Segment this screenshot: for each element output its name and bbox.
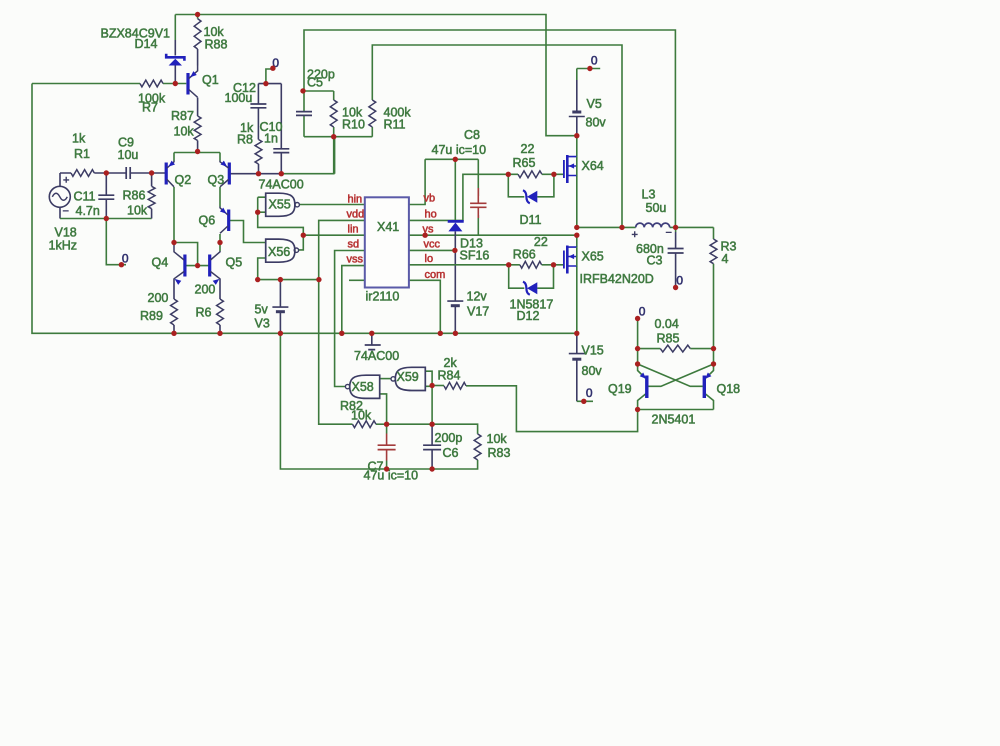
wire C6 stems xyxy=(431,424,433,469)
svg-text:1n: 1n xyxy=(264,131,278,145)
svg-text:X58: X58 xyxy=(352,380,374,394)
capacitor C5 xyxy=(296,112,312,116)
svg-text:10k: 10k xyxy=(127,204,148,218)
voltage source V15 80v xyxy=(569,353,585,355)
diode D13 SF16 bootstrap xyxy=(448,220,464,223)
wire R87 to diff pair tail xyxy=(197,141,199,153)
resistor R3 xyxy=(710,239,717,264)
wire X65 drain xyxy=(576,235,578,247)
resistor R66 xyxy=(520,261,542,268)
wire Q6 collector drop xyxy=(219,234,221,243)
svg-text:47u ic=10: 47u ic=10 xyxy=(364,469,419,483)
wire C3 top link xyxy=(675,227,677,232)
svg-text:X41: X41 xyxy=(377,220,399,234)
resistor R82 xyxy=(353,421,377,428)
resistor R8 xyxy=(255,140,262,165)
wire V18 minus bottom xyxy=(60,218,152,220)
svg-text:0: 0 xyxy=(639,304,646,318)
NAND gate X58 xyxy=(350,375,380,398)
wire R11 feedback rail xyxy=(372,45,622,227)
svg-text:1k: 1k xyxy=(72,132,86,146)
capacitor C11 xyxy=(98,195,114,199)
svg-text:L3: L3 xyxy=(642,188,656,202)
junction dots xyxy=(195,12,200,17)
svg-text:C3: C3 xyxy=(647,254,663,268)
wire lin line xyxy=(303,234,365,236)
svg-text:R65: R65 xyxy=(513,156,536,170)
capacitor C10 xyxy=(273,149,289,153)
svg-text:47u ic=10: 47u ic=10 xyxy=(432,143,487,157)
svg-text:200p: 200p xyxy=(435,431,463,445)
svg-text:R87: R87 xyxy=(171,109,194,123)
wire Q3 collector to Q6 xyxy=(219,187,221,207)
NAND gate X56 xyxy=(266,239,295,262)
svg-text:ir2110: ir2110 xyxy=(366,289,400,303)
capacitor C8 with initial condition xyxy=(477,188,479,218)
svg-text:lo: lo xyxy=(425,253,434,265)
wire V17 branch xyxy=(454,250,456,333)
wire X59 inputs tie xyxy=(425,371,432,386)
svg-text:+: + xyxy=(632,229,638,241)
transistor Q2 xyxy=(165,163,168,185)
wire V18 minus stem xyxy=(59,207,61,218)
wire C10 stems xyxy=(280,84,282,174)
svg-text:R8: R8 xyxy=(237,132,253,146)
svg-text:100u: 100u xyxy=(225,91,253,105)
svg-text:V15: V15 xyxy=(582,344,604,358)
resistor R88 xyxy=(194,19,201,49)
resistor R84 xyxy=(444,382,466,389)
wire Q1 emitter to R87 xyxy=(197,98,199,117)
wire X58 lower input down xyxy=(380,394,387,424)
wire C5 stems xyxy=(303,91,305,137)
transistor Q6 xyxy=(227,210,230,232)
wire Q6 base to X56 input xyxy=(230,221,266,243)
svg-text:X55: X55 xyxy=(269,198,291,212)
wire unused pin stub xyxy=(349,279,365,281)
svg-text:10k: 10k xyxy=(174,125,195,139)
svg-text:10k: 10k xyxy=(351,409,372,423)
resistor R7 xyxy=(140,80,163,87)
wire D11 bypass loop xyxy=(508,174,554,197)
wire Q2 emitter drop xyxy=(173,153,175,161)
svg-text:SF16: SF16 xyxy=(460,248,490,262)
wire C7 stems xyxy=(386,424,388,469)
svg-text:R84: R84 xyxy=(438,369,461,383)
transistor Q5 xyxy=(208,255,211,277)
svg-text:R1: R1 xyxy=(74,147,90,161)
wire X64 source to switch node xyxy=(576,176,578,228)
wire com pin to rail xyxy=(409,280,440,333)
capacitor C6 xyxy=(423,445,441,449)
svg-text:R88: R88 xyxy=(205,37,228,51)
wire V5 ground line xyxy=(577,68,600,70)
svg-text:R6: R6 xyxy=(196,306,212,320)
svg-text:22: 22 xyxy=(521,142,535,156)
wire left feedback drop and bottom com rail xyxy=(32,84,577,334)
svg-text:R7: R7 xyxy=(142,101,158,115)
svg-text:−: − xyxy=(666,227,672,239)
NAND gate X55 74AC00 xyxy=(266,193,295,216)
wire ground drop to R85 xyxy=(637,319,639,349)
capacitor C9 xyxy=(126,167,130,179)
resistor R10 xyxy=(330,100,337,127)
wire ho line up to R65 xyxy=(409,174,518,220)
transistor Q1 xyxy=(186,73,189,95)
svg-text:vcc: vcc xyxy=(424,239,441,251)
wire bootstrap top node xyxy=(425,158,478,160)
wire R85 left stub xyxy=(638,348,661,350)
wire emitter join bar xyxy=(638,409,714,411)
wire lower ground rail loop xyxy=(280,333,477,469)
wire Q4 emitter to R89 xyxy=(173,279,175,300)
voltage source V5 80v xyxy=(569,116,585,118)
wire C5 R10 top link xyxy=(304,91,334,100)
resistor R83 xyxy=(474,434,481,460)
wire C8 bottom stem xyxy=(477,215,479,235)
svg-text:D12: D12 xyxy=(517,309,540,323)
wire mirror bases link xyxy=(174,243,198,266)
wire Q18 emitter xyxy=(706,364,714,378)
svg-text:Q1: Q1 xyxy=(202,73,219,87)
svg-text:vss: vss xyxy=(347,254,364,266)
label 74AC00 lower with ground xyxy=(365,345,381,350)
wire cross couple to Q18 base xyxy=(638,364,703,386)
wire Q5 collector drop xyxy=(219,243,221,252)
wire C12 top stem xyxy=(257,84,259,104)
wire switch node to L3 xyxy=(577,226,636,228)
svg-text:sd: sd xyxy=(348,239,360,251)
transistor Q3 xyxy=(228,163,231,185)
svg-text:R83: R83 xyxy=(488,446,511,460)
svg-text:4: 4 xyxy=(722,252,729,266)
zener diode D14 BZX84C9V1 xyxy=(174,15,176,41)
wire R3 stems xyxy=(713,227,715,348)
wire Q18 top node xyxy=(713,349,715,364)
inductor L3 xyxy=(636,223,670,227)
wire X58 input from X59 xyxy=(380,378,391,380)
wire Q19 emitter xyxy=(638,364,646,378)
svg-text:0: 0 xyxy=(591,54,598,68)
svg-text:0: 0 xyxy=(676,273,683,287)
wire Q4 Q5 base bar xyxy=(186,265,209,267)
svg-text:R66: R66 xyxy=(513,248,536,262)
wire R6 to com rail xyxy=(219,325,221,333)
svg-text:200: 200 xyxy=(148,291,169,305)
svg-text:22: 22 xyxy=(534,235,548,249)
wire C3 stems xyxy=(675,232,677,287)
capacitor C12 xyxy=(250,104,266,108)
NAND gate X59 xyxy=(395,367,425,390)
wire lo line to R66 xyxy=(409,264,520,266)
svg-text:0.04: 0.04 xyxy=(655,317,679,331)
wire local ground 74AC00 xyxy=(371,333,373,344)
svg-text:80v: 80v xyxy=(582,364,603,378)
wire Q3 base node xyxy=(281,137,334,174)
wire V18 plus to R1 xyxy=(60,173,71,186)
wire D12 bypass loop xyxy=(509,265,554,288)
svg-text:Q3: Q3 xyxy=(208,173,225,187)
wire Q2 collector drop xyxy=(173,187,175,243)
wire X56 output to lin node xyxy=(299,235,304,250)
wire vs line to switch node xyxy=(409,234,577,236)
wire R88 to Q1 collector xyxy=(197,49,199,66)
resistor R1 xyxy=(71,170,94,177)
svg-text:X59: X59 xyxy=(397,370,419,384)
wire R85 right stub xyxy=(690,348,713,350)
capacitor C7 with initial condition xyxy=(386,434,388,461)
svg-text:+: + xyxy=(63,175,69,187)
svg-text:X64: X64 xyxy=(582,159,604,173)
svg-text:80v: 80v xyxy=(586,116,607,130)
svg-text:C8: C8 xyxy=(464,128,480,142)
resistor R85 xyxy=(660,345,690,352)
svg-text:X56: X56 xyxy=(268,245,290,259)
svg-text:1kHz: 1kHz xyxy=(49,239,77,253)
svg-text:5v: 5v xyxy=(255,303,269,317)
wire X55 input tie xyxy=(258,197,304,235)
wire input ground stub xyxy=(106,219,126,265)
zener diode D11 xyxy=(523,190,530,203)
svg-text:12v: 12v xyxy=(467,290,488,304)
wire V15 stems xyxy=(576,333,578,401)
resistor R86 xyxy=(148,186,155,208)
wire top -80V rail xyxy=(175,15,577,136)
svg-text:hin: hin xyxy=(348,193,363,205)
wire sd line to X58 output xyxy=(335,251,365,387)
voltage source V17 12v xyxy=(447,300,463,302)
wire V3 stems xyxy=(279,280,281,334)
wire R89 to com rail xyxy=(173,325,175,333)
svg-text:50u: 50u xyxy=(646,201,667,215)
resistor R6 xyxy=(217,299,224,325)
svg-text:10u: 10u xyxy=(118,148,139,162)
svg-text:Q2: Q2 xyxy=(175,173,192,187)
svg-text:Q18: Q18 xyxy=(717,382,741,396)
svg-text:V3: V3 xyxy=(255,317,270,331)
svg-text:R10: R10 xyxy=(342,118,365,132)
svg-text:com: com xyxy=(425,269,446,281)
wire R1 to C9 to Q2 base xyxy=(94,172,165,174)
svg-text:Q19: Q19 xyxy=(608,382,632,396)
capacitor C3 xyxy=(668,249,684,254)
svg-text:vb: vb xyxy=(424,193,436,205)
svg-text:V18: V18 xyxy=(55,226,77,240)
svg-text:−: − xyxy=(63,206,69,218)
resistor R87 xyxy=(194,116,201,141)
wire C8 top stem xyxy=(477,159,479,196)
wire R7 to Q1 base xyxy=(163,83,186,85)
schottky diode D12 1N5817 xyxy=(523,282,530,295)
wire Q3 emitter drop xyxy=(219,153,221,161)
svg-text:Q5: Q5 xyxy=(226,256,243,270)
wire R86 stems xyxy=(151,173,153,219)
svg-text:C6: C6 xyxy=(443,446,459,460)
wire Q18 collector xyxy=(705,394,714,410)
svg-text:D14: D14 xyxy=(135,37,158,51)
svg-text:R11: R11 xyxy=(384,118,406,132)
svg-text:R85: R85 xyxy=(657,332,680,346)
svg-text:Q4: Q4 xyxy=(152,256,169,270)
wire R84 left stub xyxy=(432,385,444,387)
wire R65 to X64 gate xyxy=(542,173,564,175)
transistor Q18 2N5401 xyxy=(703,376,706,399)
wire R82 right stub xyxy=(376,423,387,425)
wire R7 left segment xyxy=(32,83,140,85)
svg-text:X65: X65 xyxy=(582,250,604,264)
svg-text:10k: 10k xyxy=(487,432,508,446)
wire vb to bootstrap node xyxy=(409,159,425,204)
wire X56 lower input to 5v net xyxy=(258,258,319,280)
svg-text:4.7n: 4.7n xyxy=(76,204,100,218)
svg-text:74AC00: 74AC00 xyxy=(259,177,304,191)
wire local ground stub C12 xyxy=(266,69,271,84)
wire X55 output hin line xyxy=(300,204,365,206)
power MOSFET X64 xyxy=(563,160,565,178)
svg-text:V17: V17 xyxy=(467,304,489,318)
svg-text:0: 0 xyxy=(586,386,593,400)
wire C12 C10 top node xyxy=(258,83,281,85)
svg-text:R86: R86 xyxy=(123,188,146,202)
wire R66 to X65 gate xyxy=(542,264,564,266)
wire vcc line xyxy=(409,249,455,251)
wire X65 source to rail xyxy=(576,266,578,333)
svg-text:ho: ho xyxy=(425,209,437,221)
wire X64 drain xyxy=(576,136,578,157)
wire Q19 top node xyxy=(637,349,639,364)
wire R8 bottom stub xyxy=(258,164,260,174)
wire C12 to R8 xyxy=(257,108,259,140)
voltage source V18 1kHz sine input xyxy=(49,186,70,207)
svg-text:C11: C11 xyxy=(74,190,96,204)
wire V5 stems xyxy=(576,80,578,136)
transistor Q4 xyxy=(183,255,186,277)
wire current sense return xyxy=(466,386,638,432)
wire L3 to output node xyxy=(670,226,714,228)
svg-text:2N5401: 2N5401 xyxy=(652,413,696,427)
svg-text:200: 200 xyxy=(195,283,216,297)
wire X59 node down to C6 xyxy=(431,386,433,425)
wire vdd line to R82 xyxy=(319,220,365,424)
svg-text:Q6: Q6 xyxy=(199,214,216,228)
wire cross couple to Q19 base xyxy=(648,364,713,386)
wire tail bar xyxy=(174,152,220,154)
wire delay node line xyxy=(387,424,478,434)
resistor R65 xyxy=(518,171,542,178)
wire Q5 emitter to R6 xyxy=(219,279,221,300)
svg-text:lin: lin xyxy=(348,223,359,235)
resistor R11 xyxy=(369,100,376,127)
svg-text:IRFB42N20D: IRFB42N20D xyxy=(580,272,654,286)
wire Q19 collector xyxy=(638,394,647,410)
svg-text:D11: D11 xyxy=(520,213,542,227)
svg-text:74AC00: 74AC00 xyxy=(354,349,399,363)
svg-text:V5: V5 xyxy=(587,97,602,111)
voltage source V3 5v xyxy=(272,306,288,308)
power MOSFET X65 IRFB42N20D xyxy=(563,251,565,269)
wire R10 R11 bottom node xyxy=(304,127,372,174)
wire C5 feedback rail xyxy=(304,30,675,227)
svg-text:C5: C5 xyxy=(307,76,323,90)
IC X41 ir2110 gate driver xyxy=(365,197,409,287)
transistor Q19 2N5401 xyxy=(645,376,648,399)
svg-text:R89: R89 xyxy=(140,309,163,323)
wire C11 stems xyxy=(105,173,107,219)
wire V5 top link xyxy=(576,69,578,81)
wire Q3 base node navy part xyxy=(230,173,281,175)
wire R88 top stub xyxy=(197,15,199,19)
resistor R89 xyxy=(171,299,178,325)
svg-text:vdd: vdd xyxy=(347,209,365,221)
wire vss line to com rail xyxy=(342,266,365,334)
wire V15 ground line xyxy=(577,400,593,402)
wire D13 cathode feed xyxy=(454,159,456,220)
